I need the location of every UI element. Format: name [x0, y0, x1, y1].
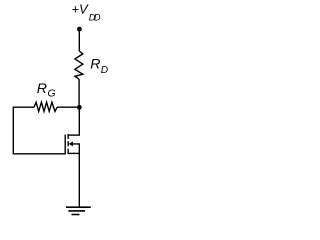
transistor Q1 channel drain segment — [67, 134, 69, 139]
label RG — [37, 81, 56, 100]
ground — [66, 207, 91, 214]
wire source to ground — [78, 153, 80, 207]
wire feedback left vertical — [12, 107, 14, 155]
wire RG right lead to node A — [57, 106, 79, 108]
svg-text:D: D — [101, 65, 109, 76]
transistor Q1 body arrow line — [72, 144, 79, 154]
resistor RD — [75, 51, 83, 79]
label RD — [90, 56, 109, 76]
svg-text:G: G — [48, 89, 56, 100]
transistor Q1 channel body segment — [67, 141, 69, 146]
node +VDD label — [71, 1, 101, 22]
wire RD to node A — [78, 79, 80, 107]
svg-text:R: R — [90, 56, 100, 72]
svg-text:R: R — [37, 81, 47, 97]
svg-text:+V: +V — [71, 1, 89, 16]
transistor Q1 source lead — [69, 152, 80, 154]
transistor Q1 gate bar — [64, 135, 66, 155]
transistor Q1 body arrowhead — [69, 142, 73, 147]
wire RG left lead — [13, 106, 34, 108]
wire drain to node A — [78, 107, 80, 136]
transistor Q1 channel source segment — [67, 149, 69, 155]
power node dot — [77, 27, 82, 32]
wire VDD to RD — [78, 29, 80, 51]
resistor RG — [34, 102, 57, 111]
transistor Q1 drain lead — [69, 134, 80, 136]
wire gate lead — [13, 153, 66, 155]
node A junction dot — [77, 105, 82, 110]
svg-text:DD: DD — [89, 12, 101, 22]
